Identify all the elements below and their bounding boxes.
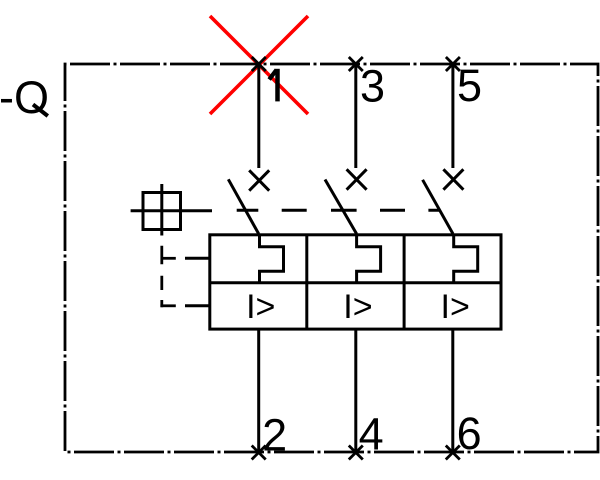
- svg-text:2: 2: [262, 410, 287, 461]
- svg-text:I>: I>: [441, 288, 470, 326]
- svg-text:I>: I>: [343, 288, 372, 326]
- svg-text:4: 4: [359, 409, 384, 460]
- svg-text:6: 6: [457, 408, 482, 459]
- svg-text:I>: I>: [246, 288, 275, 326]
- svg-text:-O: -O: [0, 72, 49, 123]
- svg-text:3: 3: [360, 61, 385, 112]
- svg-text:5: 5: [457, 60, 482, 111]
